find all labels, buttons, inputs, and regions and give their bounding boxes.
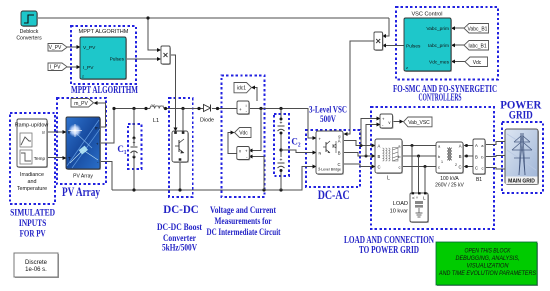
svg-text:1: 1 bbox=[441, 160, 443, 164]
wire transformer B to B1 bbox=[463, 155, 473, 157]
svg-text:c: c bbox=[438, 165, 440, 170]
arrow into L block B bbox=[372, 154, 376, 158]
svg-text:c: c bbox=[482, 166, 484, 171]
wire C1 branch bbox=[133, 109, 135, 191]
wire IGBT emitter drop bbox=[179, 162, 181, 190]
wire load drop phase a bbox=[411, 146, 413, 194]
node L1 left terminal bbox=[144, 107, 147, 110]
wire Vab meter out to Vab_VSC goto bbox=[392, 121, 400, 123]
svg-text:PV Array: PV Array bbox=[62, 185, 101, 199]
wire product2 to bridge g bbox=[347, 41, 374, 134]
svg-text:5kHz/500V: 5kHz/500V bbox=[162, 244, 197, 254]
svg-text:C: C bbox=[378, 165, 381, 170]
block boost IGBT bbox=[172, 131, 189, 163]
svg-text:m_PV: m_PV bbox=[74, 101, 88, 107]
diode D bbox=[204, 105, 211, 112]
goto tag Vab_VSC bbox=[404, 117, 433, 127]
svg-text:Temperature: Temperature bbox=[17, 186, 47, 192]
wire IGBT collector drop bbox=[182, 109, 184, 132]
arrow into L block A bbox=[372, 144, 376, 148]
from tag Vabc_B1 bbox=[464, 24, 489, 34]
svg-text:and: and bbox=[28, 179, 37, 185]
svg-text:B1: B1 bbox=[476, 177, 482, 183]
svg-text:TO POWER GRID: TO POWER GRID bbox=[359, 245, 419, 256]
product block 2 flipped bbox=[374, 32, 384, 51]
node diode anode terminal bbox=[197, 107, 200, 110]
svg-text:idc1: idc1 bbox=[237, 86, 246, 92]
arrow into Vab_VSC goto bbox=[400, 120, 404, 124]
dashed box measurements bbox=[222, 76, 265, 198]
node load tap phase a bbox=[411, 144, 414, 147]
svg-text:AND TIME EVOLUTION PARAMETERS: AND TIME EVOLUTION PARAMETERS bbox=[438, 270, 537, 277]
svg-text:3-Level VSC: 3-Level VSC bbox=[309, 106, 347, 116]
wire B1 c to main grid bbox=[485, 168, 505, 170]
arrow into Vdc meter minus bbox=[249, 155, 253, 159]
svg-text:Voltage and Current: Voltage and Current bbox=[210, 206, 277, 216]
node C2 bottom junction bbox=[279, 188, 282, 191]
svg-text:Ir: Ir bbox=[42, 130, 45, 135]
svg-text:I_PV: I_PV bbox=[83, 65, 94, 71]
svg-text:N: N bbox=[319, 152, 322, 156]
svg-text:B: B bbox=[338, 151, 341, 156]
svg-text:Vdc: Vdc bbox=[473, 60, 482, 66]
svg-text:B: B bbox=[459, 154, 462, 159]
svg-text:Vabc_prim: Vabc_prim bbox=[426, 26, 449, 32]
wire deblock to product2 bbox=[386, 18, 390, 36]
arrow into bridge plus bbox=[313, 136, 317, 140]
svg-text:C: C bbox=[458, 165, 461, 170]
svg-text:FOR PV: FOR PV bbox=[20, 230, 46, 240]
svg-text:DC Intermediate Circuit: DC Intermediate Circuit bbox=[207, 228, 282, 238]
svg-text:Deblock: Deblock bbox=[20, 29, 39, 35]
wire bridge A to L bbox=[343, 141, 372, 146]
block current measurement idc bbox=[237, 101, 250, 115]
wire PV minus to bottom bus bbox=[100, 162, 112, 191]
arrow into MPPT I_PV bbox=[77, 65, 81, 69]
wire Temp to PV array bbox=[47, 157, 63, 159]
node IGBT collector junction bbox=[181, 107, 184, 110]
wire L output b to transformer bbox=[402, 155, 436, 157]
capacitor C2 upper bbox=[277, 118, 285, 135]
wire Vdc meter minus tap bbox=[252, 157, 264, 191]
svg-text:z: z bbox=[406, 65, 408, 70]
svg-text:+: + bbox=[133, 140, 136, 146]
wire B1 a to main grid bbox=[485, 142, 505, 145]
wire deblock to product1 bbox=[148, 18, 157, 50]
product block 1 bbox=[161, 46, 171, 65]
arrow into bridge g bbox=[344, 132, 348, 136]
wire L output a to transformer bbox=[402, 145, 436, 147]
node IGBT emitter junction bbox=[178, 188, 181, 191]
block Irradiance and Temperature source bbox=[15, 119, 49, 168]
wire Ir to PV array bbox=[47, 131, 63, 133]
wire idc out to idc1 goto bbox=[254, 88, 257, 102]
node load tap phase c bbox=[424, 165, 427, 168]
from tag V_PV bbox=[48, 44, 67, 52]
wire I_PV tag to MPPT bbox=[67, 66, 77, 68]
svg-text:Temp: Temp bbox=[34, 156, 46, 161]
svg-text:SIMULATED: SIMULATED bbox=[10, 209, 55, 219]
wire Iabc_B1 tag to VSC control bbox=[454, 44, 464, 46]
goto tag idc1 bbox=[234, 83, 252, 93]
node Vdc plus tap bbox=[259, 107, 262, 110]
svg-text:c: c bbox=[399, 165, 401, 170]
svg-text:3-Level Bridge: 3-Level Bridge bbox=[318, 167, 342, 172]
block green annotation bbox=[436, 242, 538, 286]
node load tap phase b bbox=[417, 155, 420, 158]
svg-text:T: T bbox=[68, 156, 71, 161]
node C2 middle junction bbox=[279, 148, 282, 151]
wire Vabc_B1 tag to VSC control bbox=[454, 27, 464, 29]
svg-text:B: B bbox=[475, 155, 478, 160]
svg-text:Converter: Converter bbox=[163, 234, 197, 244]
dashed box DC-AC bbox=[306, 130, 360, 187]
svg-text:100 kVA: 100 kVA bbox=[440, 176, 459, 182]
dashed box C1 bbox=[128, 124, 142, 169]
svg-text:L1: L1 bbox=[153, 118, 159, 124]
svg-text:A: A bbox=[338, 139, 341, 144]
wire Vdc meter out to Vdc goto bbox=[228, 133, 237, 154]
svg-text:DC-AC: DC-AC bbox=[318, 188, 350, 202]
svg-text:Ramp-up/dow: Ramp-up/dow bbox=[15, 123, 49, 129]
capacitor C1 symbol bbox=[130, 137, 138, 159]
block MPPT controller bbox=[80, 37, 127, 80]
svg-text:C₁: C₁ bbox=[117, 144, 126, 154]
arrow into Vdc goto bbox=[231, 131, 235, 135]
wire top DC bus segment 2 bbox=[164, 108, 203, 110]
arrow into PV T bbox=[63, 156, 67, 160]
svg-text:Measurements for: Measurements for bbox=[215, 217, 273, 227]
svg-text:z: z bbox=[82, 74, 84, 79]
arrow into product1 top bbox=[157, 48, 161, 52]
wire Vdc tag to VSC control bbox=[454, 61, 465, 63]
wire top DC bus segment 3 bbox=[212, 108, 237, 110]
svg-text:C: C bbox=[475, 166, 478, 171]
block LOAD bbox=[410, 192, 429, 223]
block PV Array bbox=[66, 117, 101, 180]
svg-text:CONTROLLERS: CONTROLLERS bbox=[419, 93, 462, 104]
svg-text:C₂: C₂ bbox=[291, 137, 300, 147]
wire product1 output to boost gate bbox=[170, 55, 176, 128]
svg-text:Irradiance: Irradiance bbox=[20, 172, 44, 178]
node C2 top junction bbox=[279, 107, 282, 110]
capacitor C2 lower bbox=[277, 157, 285, 172]
svg-text:Iabc_B1: Iabc_B1 bbox=[468, 43, 487, 49]
arrow into product2 bottom bbox=[382, 44, 386, 48]
wire load drop phase c bbox=[424, 167, 426, 194]
svg-text:DC-DC: DC-DC bbox=[163, 202, 199, 216]
wire top DC bus segment 4 to bridge plus bbox=[249, 109, 313, 139]
wire deblock top bus bbox=[37, 17, 389, 19]
svg-text:V_PV: V_PV bbox=[83, 45, 96, 51]
arrow into L block C bbox=[372, 165, 376, 169]
arrow into idc1 goto bbox=[251, 86, 255, 90]
arrow into m_PV goto bbox=[94, 101, 98, 105]
svg-text:Vdc: Vdc bbox=[239, 131, 248, 137]
from tag Vdc source bbox=[465, 57, 488, 67]
node junction deblock tap bbox=[146, 16, 149, 19]
svg-text:Pulses: Pulses bbox=[406, 44, 421, 50]
from tag Iabc_B1 bbox=[464, 41, 489, 51]
arrow into VSC Vabc_prim bbox=[451, 26, 455, 30]
svg-text:10 kvar: 10 kvar bbox=[390, 209, 408, 215]
block B1 measurement bbox=[473, 139, 486, 175]
svg-text:Diode: Diode bbox=[200, 118, 214, 124]
wire V_PV tag to MPPT bbox=[67, 46, 77, 48]
svg-text:260V / 25 kV: 260V / 25 kV bbox=[435, 183, 464, 189]
wire transformer C to B1 bbox=[463, 166, 473, 168]
svg-text:500V: 500V bbox=[320, 115, 336, 125]
arrow into Vab meter minus bbox=[377, 123, 381, 127]
svg-text:GRID: GRID bbox=[509, 108, 533, 122]
wire transformer A to B1 bbox=[463, 145, 473, 147]
svg-text:Converters: Converters bbox=[16, 36, 42, 42]
wire L output c to transformer bbox=[402, 166, 436, 168]
svg-text:1e-06 s.: 1e-06 s. bbox=[25, 267, 47, 273]
arrow into boost gate bbox=[174, 128, 178, 132]
node C1 bottom junction bbox=[132, 188, 135, 191]
node C1 top junction bbox=[132, 107, 135, 110]
arrow into PV Ir bbox=[63, 130, 67, 134]
svg-text:LOAD: LOAD bbox=[393, 201, 408, 207]
goto tag m_PV bbox=[71, 99, 94, 108]
node phase B tap bbox=[365, 155, 368, 158]
dashed box SIMULATED INPUTS bbox=[10, 113, 55, 204]
svg-text:V_PV: V_PV bbox=[49, 45, 62, 51]
goto tag Vdc bbox=[235, 128, 252, 138]
block voltage measurement Vdc bbox=[237, 147, 251, 161]
node diode cathode terminal bbox=[216, 107, 219, 110]
svg-text:<: < bbox=[412, 196, 415, 201]
block Deblock Converters bbox=[16, 11, 42, 42]
svg-text:i: i bbox=[246, 103, 247, 108]
dashed box MPPT ALGORITHM bbox=[71, 26, 136, 84]
dashed box PV Array bbox=[57, 98, 106, 184]
svg-text:m: m bbox=[95, 126, 99, 131]
block L three-phase inductor bbox=[375, 139, 403, 174]
wire bridge B to L bbox=[343, 153, 372, 157]
svg-text:Vdc_mes: Vdc_mes bbox=[429, 60, 450, 66]
svg-text:Pulses: Pulses bbox=[110, 57, 125, 63]
wire bottom bus bbox=[112, 167, 313, 191]
block transformer 100kVA bbox=[436, 142, 464, 174]
dashed box C2 bbox=[274, 114, 289, 176]
wire B1 b to main grid bbox=[485, 156, 505, 157]
arrow into Vdc meter plus bbox=[249, 149, 253, 153]
node transformer output C terminal bbox=[465, 165, 468, 168]
dashed box POWER GRID bbox=[502, 122, 543, 193]
block VSC Control bbox=[404, 18, 452, 72]
svg-text:+: + bbox=[96, 142, 99, 147]
wire C2 middle to bridge N bbox=[281, 150, 313, 153]
svg-text:Vabc_B1: Vabc_B1 bbox=[468, 26, 488, 32]
svg-text:+: + bbox=[239, 107, 242, 112]
svg-text:2: 2 bbox=[455, 163, 457, 167]
svg-text:Discrete: Discrete bbox=[25, 260, 48, 266]
svg-text:A: A bbox=[459, 144, 462, 149]
node transformer output A terminal bbox=[465, 144, 468, 147]
wire PV m output to m_PV goto bbox=[96, 103, 106, 127]
node PV plus on bus bbox=[112, 107, 115, 110]
node L1 right terminal bbox=[164, 107, 167, 110]
arrow into product1 bottom bbox=[157, 57, 161, 61]
block 3-Level Bridge bbox=[316, 131, 344, 175]
svg-text:MPPT ALGORITHM: MPPT ALGORITHM bbox=[79, 29, 129, 35]
node phase A tap bbox=[360, 144, 363, 147]
wire C2 branch bbox=[280, 109, 282, 191]
arrow into MPPT V_PV bbox=[77, 45, 81, 49]
block MAIN GRID bbox=[505, 129, 539, 185]
arrow into Vab meter plus bbox=[377, 117, 381, 121]
svg-text:OPEN THIS BLOCK: OPEN THIS BLOCK bbox=[465, 247, 512, 254]
svg-text:L: L bbox=[387, 176, 390, 182]
wire load drop phase b bbox=[418, 156, 420, 193]
node Vdc minus tap bbox=[262, 188, 265, 191]
arrow into bridge minus bbox=[313, 165, 317, 169]
svg-text:A: A bbox=[378, 144, 381, 149]
dashed box DC-DC bbox=[169, 98, 193, 197]
svg-text:B: B bbox=[378, 154, 381, 159]
svg-text:Vab_VSC: Vab_VSC bbox=[408, 120, 430, 126]
from tag I_PV bbox=[48, 63, 67, 71]
arrow into product2 top bbox=[382, 34, 386, 38]
arrow into VSC Vdc_mes bbox=[451, 60, 455, 64]
node transformer output B terminal bbox=[465, 155, 468, 158]
wire Vdc meter plus tap bbox=[252, 109, 261, 151]
svg-text:L: L bbox=[423, 196, 426, 201]
dashed box FO-SMC controllers bbox=[396, 7, 498, 80]
inductor L1 bbox=[150, 103, 164, 109]
svg-text:Iabc_prim: Iabc_prim bbox=[428, 43, 449, 49]
wire VSC pulses to product2 bbox=[386, 45, 405, 47]
svg-text:PV Array: PV Array bbox=[73, 174, 93, 180]
wire phase A tap to Vab meter bbox=[361, 119, 377, 146]
svg-text:I_PV: I_PV bbox=[50, 65, 62, 71]
block Discrete powergui bbox=[14, 253, 59, 278]
wire phase B tap to Vab meter bbox=[366, 125, 377, 157]
wire top DC bus segment 1 bbox=[114, 108, 150, 110]
wire bridge C to L bbox=[343, 164, 372, 167]
svg-text:MAIN GRID: MAIN GRID bbox=[508, 179, 535, 185]
dashed box LOAD AND CONNECTION bbox=[371, 107, 494, 229]
block Vab voltage measurement bbox=[380, 114, 394, 129]
svg-text:INPUTS: INPUTS bbox=[19, 219, 47, 229]
wire MPPT Pulses to product1 bbox=[126, 58, 157, 60]
svg-text:MPPT ALGORITHM: MPPT ALGORITHM bbox=[71, 85, 138, 96]
svg-text:DC-DC Boost: DC-DC Boost bbox=[157, 223, 203, 233]
svg-text:DEBUGGING, ANALYSIS,: DEBUGGING, ANALYSIS, bbox=[456, 255, 520, 262]
arrow into VSC Iabc_prim bbox=[451, 43, 455, 47]
wire PV plus to DC bus bbox=[100, 109, 114, 144]
arrow into bridge N bbox=[313, 151, 317, 155]
svg-text:VSC Control: VSC Control bbox=[411, 12, 442, 18]
svg-text:VISUALIZATION: VISUALIZATION bbox=[467, 262, 509, 269]
svg-text:A: A bbox=[475, 143, 478, 148]
